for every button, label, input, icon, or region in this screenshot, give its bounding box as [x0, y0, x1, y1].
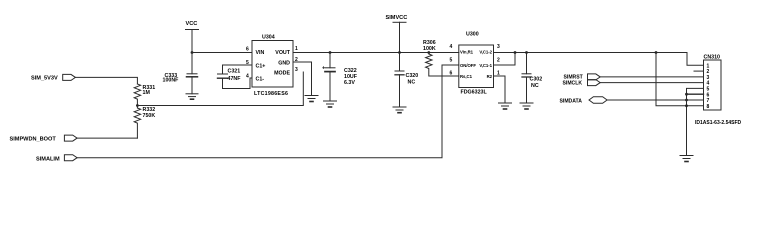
svg-text:750K: 750K [143, 113, 156, 119]
port SIMPWDN_BOOT [10, 135, 78, 143]
svg-text:CN310: CN310 [704, 55, 721, 61]
svg-text:3: 3 [497, 44, 500, 50]
svg-text:4: 4 [450, 44, 453, 50]
node pin6 / bus [685, 93, 688, 96]
node pin2 riser [514, 51, 517, 54]
port SIMCLK [563, 80, 601, 87]
ground (C333) [186, 94, 198, 99]
wire pin1 R2 to ground [494, 76, 506, 103]
svg-text:V,C1-2: V,C1-2 [479, 50, 492, 55]
wire pin2 stub [694, 70, 704, 72]
wire SIMPWDN_BOOT to R332 bottom [77, 137, 137, 139]
wire SIMRST to pin3 [600, 76, 703, 78]
ground (C320) [393, 107, 406, 113]
svg-text:4: 4 [246, 74, 249, 80]
svg-text:ON/OFF: ON/OFF [460, 63, 476, 68]
wire SIMDATA to pin7 [607, 99, 703, 101]
svg-text:C320: C320 [406, 73, 419, 79]
svg-text:5: 5 [450, 58, 453, 64]
svg-text:C302: C302 [530, 77, 543, 83]
ground (U304 GND) [305, 96, 318, 102]
svg-text:C1-: C1- [256, 76, 265, 82]
svg-text:SIMVCC: SIMVCC [386, 15, 408, 21]
svg-text:SIMDATA: SIMDATA [560, 98, 583, 104]
connector CN310 [695, 55, 742, 127]
wire VCC node to VIN pin 6 [192, 52, 252, 54]
wire pin2 riser [494, 53, 516, 66]
svg-text:C321: C321 [228, 69, 241, 75]
capacitor C322 (polarized) [322, 53, 358, 102]
ground (C302) [520, 103, 533, 109]
transistor U300 (load switch) [459, 32, 494, 96]
svg-text:3: 3 [295, 67, 298, 73]
svg-text:C1+: C1+ [256, 63, 266, 69]
svg-text:6.3V: 6.3V [344, 80, 355, 86]
wire SIMALIM to U300 ON/OFF [77, 65, 459, 158]
node junction R331/R332 [136, 104, 139, 107]
power SIMVCC [386, 15, 408, 53]
ground (CN310) [680, 156, 693, 162]
svg-text:SIM_5V3V: SIM_5V3V [31, 76, 58, 82]
resistor R306 [423, 40, 459, 76]
node C302 tap [525, 51, 528, 54]
capacitor C321 [218, 69, 253, 89]
svg-text:6: 6 [450, 71, 453, 77]
node SIMDATA / ground bus [685, 99, 688, 102]
capacitor C333 [163, 53, 198, 94]
svg-text:V,C1-1: V,C1-1 [479, 63, 492, 68]
svg-text:NC: NC [408, 80, 416, 86]
port SIMRST [564, 74, 601, 81]
resistor R332 [134, 106, 155, 139]
svg-text:6: 6 [246, 47, 249, 53]
svg-text:Rs,C1: Rs,C1 [460, 74, 473, 79]
port SIM_5V3V [31, 74, 75, 81]
svg-text:U304: U304 [262, 35, 275, 41]
wire SIM_5V3V to R331 top [75, 77, 137, 84]
resistor R331 [134, 84, 155, 106]
svg-text:2: 2 [497, 58, 500, 64]
capacitor C302 [522, 53, 542, 104]
svg-text:SIMALIM: SIMALIM [36, 156, 60, 162]
node C322 tap [329, 51, 332, 54]
node pin8 / bus [685, 104, 688, 107]
svg-text:1: 1 [295, 46, 298, 52]
svg-text:VCC: VCC [186, 21, 198, 27]
wire pin5 L to ground bus [687, 88, 704, 155]
svg-text:LTC1986ES6: LTC1986ES6 [254, 91, 288, 97]
ground (C322) [324, 101, 337, 107]
wire VOUT rail to U300 VIN pin4 [293, 52, 459, 54]
power VCC [186, 21, 199, 53]
node SIMVCC / C320 [398, 51, 401, 54]
port SIMALIM [36, 155, 77, 163]
ground (U300 R2) [499, 103, 512, 109]
node rail branch to CN310 pin8 [655, 51, 658, 54]
svg-text:1M: 1M [143, 90, 151, 96]
svg-text:SIMCLK: SIMCLK [563, 80, 583, 86]
op-amp U304 (charge pump IC) [252, 35, 293, 98]
wire GND pin2 to ground [293, 62, 312, 96]
svg-text:ID1AS1-63-2.54SFD: ID1AS1-63-2.54SFD [695, 120, 742, 126]
svg-text:MODE: MODE [274, 70, 290, 76]
node R306 tap [427, 51, 430, 54]
node VCC / C333 / VIN [191, 51, 194, 54]
svg-text:+: + [322, 66, 325, 72]
svg-text:SIMPWDN_BOOT: SIMPWDN_BOOT [10, 137, 57, 143]
svg-text:VIN: VIN [256, 50, 265, 56]
port SIMDATA [560, 97, 608, 105]
svg-text:100K: 100K [423, 46, 436, 52]
svg-text:NC: NC [531, 83, 539, 89]
svg-text:U300: U300 [466, 32, 479, 38]
svg-text:8: 8 [707, 104, 710, 110]
wire SIMCLK to pin4 [600, 82, 703, 84]
wire C1+ loop [223, 65, 253, 74]
svg-text:R2: R2 [487, 74, 493, 79]
svg-text:VOUT: VOUT [275, 50, 290, 56]
wire rail branch down to pin8 [656, 53, 704, 106]
svg-text:47NF: 47NF [228, 76, 242, 82]
wire pin6 stub [687, 93, 704, 95]
svg-text:FDG6323L: FDG6323L [461, 90, 488, 96]
svg-text:GND: GND [278, 60, 290, 66]
wire junction to MODE (long horizontal) [137, 72, 303, 106]
capacitor C320 [395, 53, 418, 108]
svg-text:Vin,R1: Vin,R1 [460, 50, 474, 55]
svg-text:100NF: 100NF [163, 78, 180, 84]
wire U300 pin3 rail to CN310 pin1 [494, 53, 704, 66]
